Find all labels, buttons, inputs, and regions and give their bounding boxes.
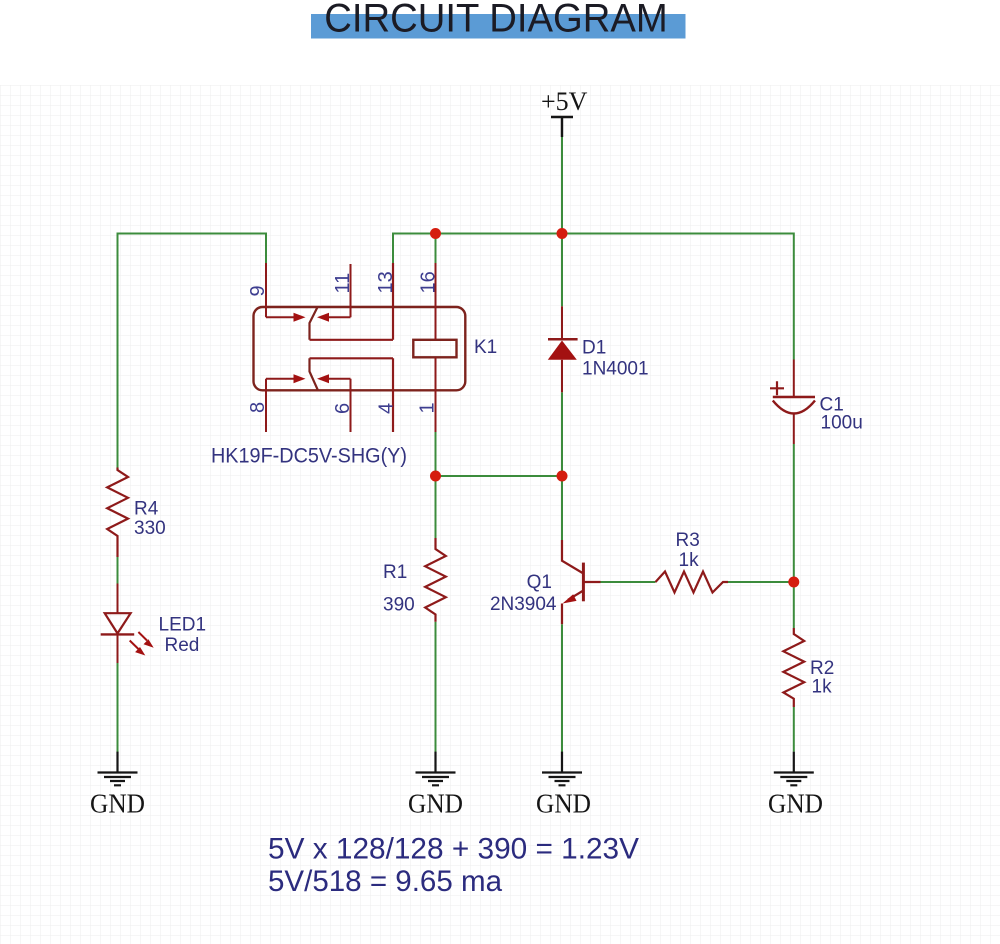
wire left top rail — [118, 233, 267, 235]
wire mid node to R1 — [435, 476, 437, 538]
wire mid node to Q1 collector — [561, 476, 563, 540]
svg-text:HK19F-DC5V-SHG(Y): HK19F-DC5V-SHG(Y) — [211, 445, 407, 468]
relay K1 outline — [254, 307, 466, 390]
wire R2 to GND — [793, 707, 795, 752]
svg-text:13: 13 — [375, 271, 397, 293]
svg-text:4: 4 — [376, 403, 398, 414]
svg-text:1N4001: 1N4001 — [582, 359, 649, 380]
svg-text:R4: R4 — [134, 498, 159, 519]
resistor R4 — [107, 468, 128, 558]
wire right vertical to C1 — [793, 233, 795, 360]
junction dot at +5V rail / pin16 — [430, 228, 441, 239]
relay K1 pin 9 lead and contact — [266, 263, 294, 317]
svg-text:GND: GND — [768, 788, 823, 819]
resistor R1 — [425, 538, 446, 622]
svg-text:6: 6 — [332, 403, 354, 414]
wire D1 anode to mid node — [561, 392, 563, 476]
relay K1 pin 11 lead and contact — [329, 264, 351, 317]
svg-text:Red: Red — [165, 635, 200, 656]
svg-text:R3: R3 — [676, 530, 700, 551]
svg-text:1k: 1k — [679, 550, 700, 571]
wire Q1 emitter to GND — [561, 624, 563, 755]
svg-text:100u: 100u — [821, 413, 863, 434]
capacitor C1 — [770, 360, 815, 445]
svg-text:330: 330 — [134, 518, 166, 539]
svg-text:11: 11 — [332, 273, 354, 294]
svg-text:Q1: Q1 — [527, 572, 552, 593]
svg-text:GND: GND — [90, 788, 145, 819]
title highlight bar — [311, 14, 686, 39]
svg-text:2N3904: 2N3904 — [490, 594, 557, 615]
wire node B to R2 — [793, 582, 795, 628]
svg-text:GND: GND — [536, 788, 591, 819]
junction dot at +5V rail / D1 — [557, 228, 568, 239]
svg-text:+5V: +5V — [541, 87, 588, 116]
wire pin9 drop — [265, 233, 267, 264]
svg-text:8: 8 — [247, 402, 269, 413]
ground symbol far right — [774, 752, 814, 786]
ground symbol left — [98, 752, 138, 786]
svg-text:1: 1 — [417, 402, 439, 413]
svg-text:D1: D1 — [582, 338, 606, 359]
svg-text:K1: K1 — [474, 337, 497, 358]
ground symbol mid — [416, 752, 456, 786]
wire left vertical to R4 — [117, 233, 119, 468]
wire pin1 to mid node — [435, 432, 437, 476]
relay K1 top contact arm — [310, 307, 318, 340]
wire +5V stem — [561, 137, 563, 234]
svg-text:16: 16 — [418, 271, 440, 293]
wire pin16 drop — [435, 233, 437, 264]
resistor R3 — [656, 572, 729, 593]
wire rail to D1 — [561, 234, 563, 307]
ground symbol right — [542, 752, 582, 786]
svg-text:5V/518 = 9.65 ma: 5V/518 = 9.65 ma — [268, 865, 502, 898]
svg-text:390: 390 — [383, 595, 415, 616]
relay K1 pin 8 lead and contact — [266, 379, 294, 432]
LED1 light arrow 2 — [130, 641, 139, 650]
relay K1 coil — [413, 340, 456, 358]
wire LED1 to GND — [117, 663, 119, 755]
svg-text:9: 9 — [247, 285, 269, 296]
junction dot mid node left — [430, 471, 441, 482]
svg-text:GND: GND — [408, 788, 463, 819]
relay K1 top fork to pin 13 — [310, 263, 394, 340]
wire pin13 drop — [392, 233, 394, 264]
wire C1 to node B — [793, 444, 795, 582]
transistor Q1 — [562, 540, 583, 574]
relay K1 pin 1 lead — [435, 357, 437, 432]
diode D1 — [561, 306, 563, 339]
power symbol +5V — [551, 117, 573, 137]
svg-text:CIRCUIT DIAGRAM: CIRCUIT DIAGRAM — [324, 0, 668, 41]
wire R3 to node B — [728, 581, 794, 583]
svg-text:1k: 1k — [812, 677, 833, 698]
relay K1 pin 16 lead — [435, 263, 437, 340]
wire mid node horizontal — [436, 475, 563, 477]
junction dot node B — [788, 577, 799, 588]
svg-text:5V x 128/128 + 390 = 1.23V: 5V x 128/128 + 390 = 1.23V — [268, 833, 639, 866]
LED1 light arrow 1 — [138, 632, 147, 641]
junction dot mid node right — [557, 471, 568, 482]
wire Q1 base to R3 — [601, 581, 656, 583]
wire R4 to LED1 — [117, 557, 119, 584]
svg-text:LED1: LED1 — [159, 615, 207, 636]
wire main +5V rail — [393, 233, 794, 235]
LED LED1 — [117, 584, 119, 614]
relay K1 bottom fork to pin 4 — [310, 358, 394, 432]
wire R1 to GND — [435, 622, 437, 755]
svg-text:R1: R1 — [383, 562, 407, 583]
resistor R2 — [783, 628, 804, 707]
relay K1 bottom contact arm — [310, 358, 318, 390]
relay K1 pin 6 lead and contact — [329, 379, 351, 432]
